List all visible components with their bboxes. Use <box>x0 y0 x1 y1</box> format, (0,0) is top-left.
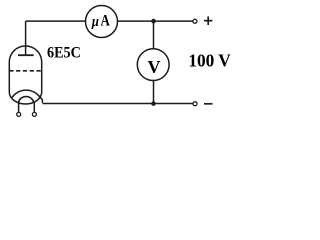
label + <box>204 16 213 25</box>
voltmeter P2 circle <box>137 49 169 81</box>
wire junction to voltmeter <box>153 21 155 49</box>
heater lead right <box>33 102 35 112</box>
svg-text:A: A <box>101 13 111 30</box>
wire bottom rail <box>42 103 193 105</box>
svg-text:μ: μ <box>91 14 99 30</box>
wire voltmeter to bottom rail <box>153 80 155 103</box>
wire top-cap lead <box>25 21 27 55</box>
cathode arc <box>12 90 41 98</box>
wire top rail right (ammeter to + terminal) <box>118 20 193 22</box>
svg-text:100 V: 100 V <box>188 51 230 71</box>
terminal - (open circle) <box>193 102 197 106</box>
tube anode target bar <box>18 54 34 56</box>
tube V1 envelope (6E5C) <box>9 46 41 104</box>
svg-text:6E5C: 6E5C <box>47 45 81 62</box>
label - <box>204 103 213 105</box>
junction bottom node <box>151 101 156 106</box>
terminal + (open circle) <box>193 19 197 23</box>
wire cathode to bottom rail <box>40 98 42 103</box>
tube grid (dashed) <box>9 70 41 72</box>
heater lead left <box>18 102 20 112</box>
wire top rail left (tube to ammeter) <box>26 20 86 22</box>
ammeter P1 circle <box>86 6 118 38</box>
svg-text:V: V <box>148 57 161 77</box>
pin terminal right <box>32 112 36 116</box>
pin terminal left <box>17 112 21 116</box>
junction top node <box>151 19 156 24</box>
heater arc <box>19 96 34 102</box>
